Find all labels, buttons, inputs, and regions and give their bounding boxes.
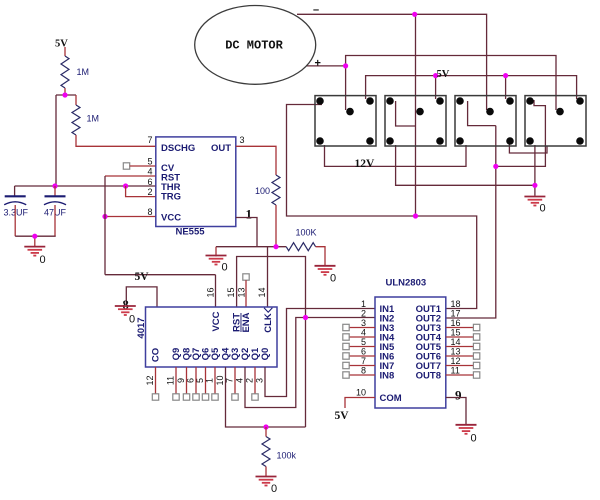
wire OUT5 stub xyxy=(446,346,474,348)
wire VCC555 stub xyxy=(105,216,156,218)
svg-text:2: 2 xyxy=(147,187,152,197)
ground ULN pin9 xyxy=(456,425,477,434)
terminal square OUT5 xyxy=(473,343,479,349)
svg-text:12V: 12V xyxy=(355,158,376,170)
wire R3 to node xyxy=(275,205,277,247)
svg-text:CO: CO xyxy=(151,348,162,362)
wire OUT pin3 xyxy=(236,146,276,175)
svg-text:8: 8 xyxy=(147,207,152,217)
resistor R5 100k xyxy=(262,437,270,467)
node THR cap junction xyxy=(52,183,57,188)
wire 4017 stub x176 xyxy=(175,367,177,394)
node 5V rail K2 tap xyxy=(433,73,438,78)
node THR TRG junction xyxy=(123,183,128,188)
svg-text:CLK: CLK xyxy=(263,313,274,333)
svg-text:2: 2 xyxy=(244,378,254,383)
svg-text:9: 9 xyxy=(455,388,462,403)
wire R1 to junction xyxy=(64,88,66,95)
wire 4017 stub x155.5 xyxy=(155,367,157,394)
svg-text:12: 12 xyxy=(145,375,155,385)
wire relay K1 to ULN OUT1 net xyxy=(287,105,477,309)
svg-text:3: 3 xyxy=(361,318,366,328)
terminal square 4017 x196 xyxy=(193,394,199,400)
terminal square 4017 x186.5 xyxy=(183,394,189,400)
svg-text:5V: 5V xyxy=(335,410,350,422)
node OUT2 net junction xyxy=(493,164,498,169)
svg-text:3: 3 xyxy=(240,135,245,145)
svg-text:VCC: VCC xyxy=(161,213,181,224)
svg-text:0: 0 xyxy=(471,433,477,445)
wire R2 to pin7 xyxy=(76,135,156,146)
wire 4017 stub x186.5 xyxy=(186,367,188,394)
svg-text:13: 13 xyxy=(451,347,461,357)
wire 4017 stub x205.5 xyxy=(205,367,207,394)
svg-text:2: 2 xyxy=(361,309,366,319)
svg-text:5: 5 xyxy=(147,157,152,167)
wire ground bus stem xyxy=(215,247,217,257)
svg-text:7: 7 xyxy=(361,356,366,366)
counter U2 4017 box xyxy=(146,307,278,367)
dc motor M1 xyxy=(195,6,316,85)
svg-text:14: 14 xyxy=(257,287,267,297)
wire OUT3 stub xyxy=(446,327,474,329)
wire OUT7 stub xyxy=(446,365,474,367)
terminal square ENA pin13 xyxy=(243,274,249,280)
ground relay net xyxy=(524,197,545,206)
svg-text:10: 10 xyxy=(215,375,225,385)
svg-text:0: 0 xyxy=(40,254,46,266)
wire IN4 stub xyxy=(349,336,375,338)
wire relay K2 internal xyxy=(396,101,416,126)
wire RST555 stub xyxy=(105,175,156,177)
wire R5 top stem xyxy=(265,427,267,437)
svg-text:DSCHG: DSCHG xyxy=(161,143,195,154)
svg-text:11: 11 xyxy=(451,366,460,376)
terminal square OUT8 xyxy=(473,372,479,378)
wire 5V stem xyxy=(64,47,66,56)
svg-text:4: 4 xyxy=(147,167,152,177)
resistor R1 1M xyxy=(61,56,69,88)
svg-text:OUT: OUT xyxy=(211,143,231,154)
wire Q0 to IN1 xyxy=(265,309,375,397)
svg-text:3: 3 xyxy=(254,378,264,383)
wire junction left branch xyxy=(55,95,57,186)
wire 5V to 4017 VCC xyxy=(105,275,216,307)
wire IN8 stub xyxy=(349,374,375,376)
wire ULN OUT2 net xyxy=(446,100,545,318)
svg-text:18: 18 xyxy=(451,299,461,309)
svg-text:15: 15 xyxy=(451,328,461,338)
wire Q4 to 100k xyxy=(226,367,306,427)
svg-text:5: 5 xyxy=(361,337,366,347)
wire IN5 stub xyxy=(349,346,375,348)
relay K2 xyxy=(385,96,446,146)
node R3 junction xyxy=(273,244,278,249)
wire 5V relay rail xyxy=(366,76,577,99)
resistor R4 100K xyxy=(286,243,315,251)
svg-text:7: 7 xyxy=(147,135,152,145)
wire 4017 stub x235 xyxy=(234,367,236,394)
wire RST 4017 net xyxy=(237,257,306,428)
svg-text:0: 0 xyxy=(330,273,336,285)
svg-text:4: 4 xyxy=(234,378,244,383)
ground caps xyxy=(24,247,45,256)
terminal square 4017 x235 xyxy=(232,394,238,400)
svg-text:COM: COM xyxy=(380,393,402,404)
svg-text:5V: 5V xyxy=(135,271,150,283)
wire 4017 pin8 ground xyxy=(126,287,157,307)
svg-text:17: 17 xyxy=(451,309,461,319)
svg-text:ENA: ENA xyxy=(241,312,252,332)
terminal square 4017 x255 xyxy=(252,394,258,400)
wire IN3 stub xyxy=(349,327,375,329)
terminal square IN3 xyxy=(343,324,349,330)
terminal square OUT6 xyxy=(473,353,479,359)
terminal square IN6 xyxy=(343,353,349,359)
ground 555 bus xyxy=(206,256,227,265)
wire cap C2 top stem xyxy=(54,186,56,196)
svg-text:5V: 5V xyxy=(437,69,450,80)
svg-text:15: 15 xyxy=(226,287,236,297)
wire 5V vertical rail xyxy=(104,176,106,275)
wire CV stub xyxy=(130,165,156,167)
svg-text:Q9: Q9 xyxy=(171,348,182,361)
clock wedge CLK pin xyxy=(264,308,272,312)
svg-text:IN8: IN8 xyxy=(380,371,395,382)
svg-text:VCC: VCC xyxy=(211,311,222,331)
driver U3 ULN2803 box xyxy=(375,297,446,408)
wire relay K3 to K4 link xyxy=(509,144,547,153)
wire OUT6 stub xyxy=(446,355,474,357)
wire 4017 stub x255 xyxy=(254,367,256,394)
node motor minus junction xyxy=(412,12,417,17)
terminal square CV pin5 xyxy=(123,163,129,169)
wire pin9 to ground xyxy=(446,398,466,425)
terminal square IN8 xyxy=(343,372,349,378)
svg-text:6: 6 xyxy=(147,177,152,187)
node VCC 5V junction xyxy=(102,214,107,219)
svg-text:16: 16 xyxy=(205,287,215,297)
terminal square 4017 x215 xyxy=(212,394,218,400)
ground 4017 pin8 xyxy=(115,306,136,315)
svg-text:OUT8: OUT8 xyxy=(416,371,441,382)
terminal square 4017 x155.5 xyxy=(152,394,158,400)
svg-text:100: 100 xyxy=(255,186,270,196)
svg-text:DC MOTOR: DC MOTOR xyxy=(225,39,283,53)
svg-text:1: 1 xyxy=(361,299,366,309)
svg-text:8: 8 xyxy=(361,366,366,376)
capacitor C2 47UF xyxy=(44,196,66,205)
svg-text:0: 0 xyxy=(271,483,277,495)
svg-text:14: 14 xyxy=(451,337,461,347)
wire OUT4 stub xyxy=(446,336,474,338)
wire motor minus net xyxy=(297,14,487,110)
svg-text:0: 0 xyxy=(222,262,228,274)
op-amp U1 NE555 box xyxy=(156,137,236,227)
terminal square 4017 x205.5 xyxy=(202,394,208,400)
terminal square OUT7 xyxy=(473,362,479,368)
terminal square OUT3 xyxy=(473,324,479,330)
wire 12V line xyxy=(325,145,467,166)
svg-text:+: + xyxy=(315,58,321,70)
node caps ground junction xyxy=(32,234,37,239)
wire IN7 stub xyxy=(349,365,375,367)
svg-text:16: 16 xyxy=(451,318,461,328)
wire TRG link xyxy=(126,186,156,197)
wire junction right branch xyxy=(75,95,77,105)
svg-text:1: 1 xyxy=(246,207,253,222)
wire pin1 link xyxy=(236,218,257,247)
terminal square IN7 xyxy=(343,362,349,368)
relay K4 xyxy=(525,96,586,146)
wire 4017 stub x196 xyxy=(195,367,197,394)
wire caps bottom xyxy=(15,205,56,246)
relay K3 xyxy=(455,96,516,146)
svg-text:9: 9 xyxy=(176,378,186,383)
svg-text:4017: 4017 xyxy=(136,317,147,338)
wire THR line xyxy=(15,185,156,187)
svg-text:–: – xyxy=(313,4,319,16)
node R1 R2 junction xyxy=(56,92,76,97)
wire R5 bottom stem xyxy=(265,467,267,477)
wire R4 tail xyxy=(316,247,325,266)
resistor R3 100 xyxy=(272,175,280,205)
ground 100k xyxy=(256,477,277,486)
svg-text:1M: 1M xyxy=(77,67,90,77)
wire ENA stub xyxy=(245,280,247,307)
wire OUT8 stub xyxy=(446,374,474,376)
wire CLK drop xyxy=(267,247,269,307)
wire IN6 stub xyxy=(349,355,375,357)
svg-text:12: 12 xyxy=(451,356,461,366)
capacitor C1 3.3UF xyxy=(4,196,26,205)
svg-text:6: 6 xyxy=(361,347,366,357)
node 100k junction xyxy=(263,424,268,429)
node 5V rail K3 tap xyxy=(503,73,508,78)
terminal square 4017 x176 xyxy=(173,394,179,400)
node IN2 junction xyxy=(303,315,308,320)
terminal square IN4 xyxy=(343,334,349,340)
svg-text:0: 0 xyxy=(129,314,135,326)
node motor plus junction xyxy=(343,63,348,68)
wire Q2 to IN2 xyxy=(245,318,375,408)
svg-text:0: 0 xyxy=(540,203,546,215)
svg-text:100K: 100K xyxy=(296,228,317,238)
svg-text:NE555: NE555 xyxy=(175,227,205,238)
svg-text:100k: 100k xyxy=(277,451,297,461)
node relay ground junction xyxy=(532,183,537,188)
svg-text:TRG: TRG xyxy=(161,192,181,203)
svg-text:Q5: Q5 xyxy=(210,347,221,360)
resistor R2 1M xyxy=(72,105,80,135)
svg-text:3.3UF: 3.3UF xyxy=(4,208,29,218)
svg-text:5V: 5V xyxy=(55,39,68,50)
wire motor plus net xyxy=(306,56,556,111)
wire cap C1 top stem xyxy=(14,186,16,196)
wire ground bus 555 xyxy=(216,246,286,248)
svg-text:Q0: Q0 xyxy=(260,348,271,361)
wire 4017 stub x215 xyxy=(214,367,216,394)
wire COM to 5V xyxy=(345,398,375,409)
ground 100K xyxy=(315,266,336,275)
node OUT1 net junction xyxy=(413,213,418,218)
svg-text:1M: 1M xyxy=(87,114,100,124)
svg-text:4: 4 xyxy=(361,328,366,338)
terminal square IN5 xyxy=(343,343,349,349)
svg-text:ULN2803: ULN2803 xyxy=(386,278,427,289)
wire relay ground net xyxy=(396,145,535,196)
svg-text:11: 11 xyxy=(165,376,175,385)
svg-text:13: 13 xyxy=(237,287,247,297)
svg-text:10: 10 xyxy=(356,388,366,398)
wire motor minus vertical drop through K2 xyxy=(415,14,417,216)
terminal square OUT4 xyxy=(473,334,479,340)
relay K1 xyxy=(315,96,376,146)
